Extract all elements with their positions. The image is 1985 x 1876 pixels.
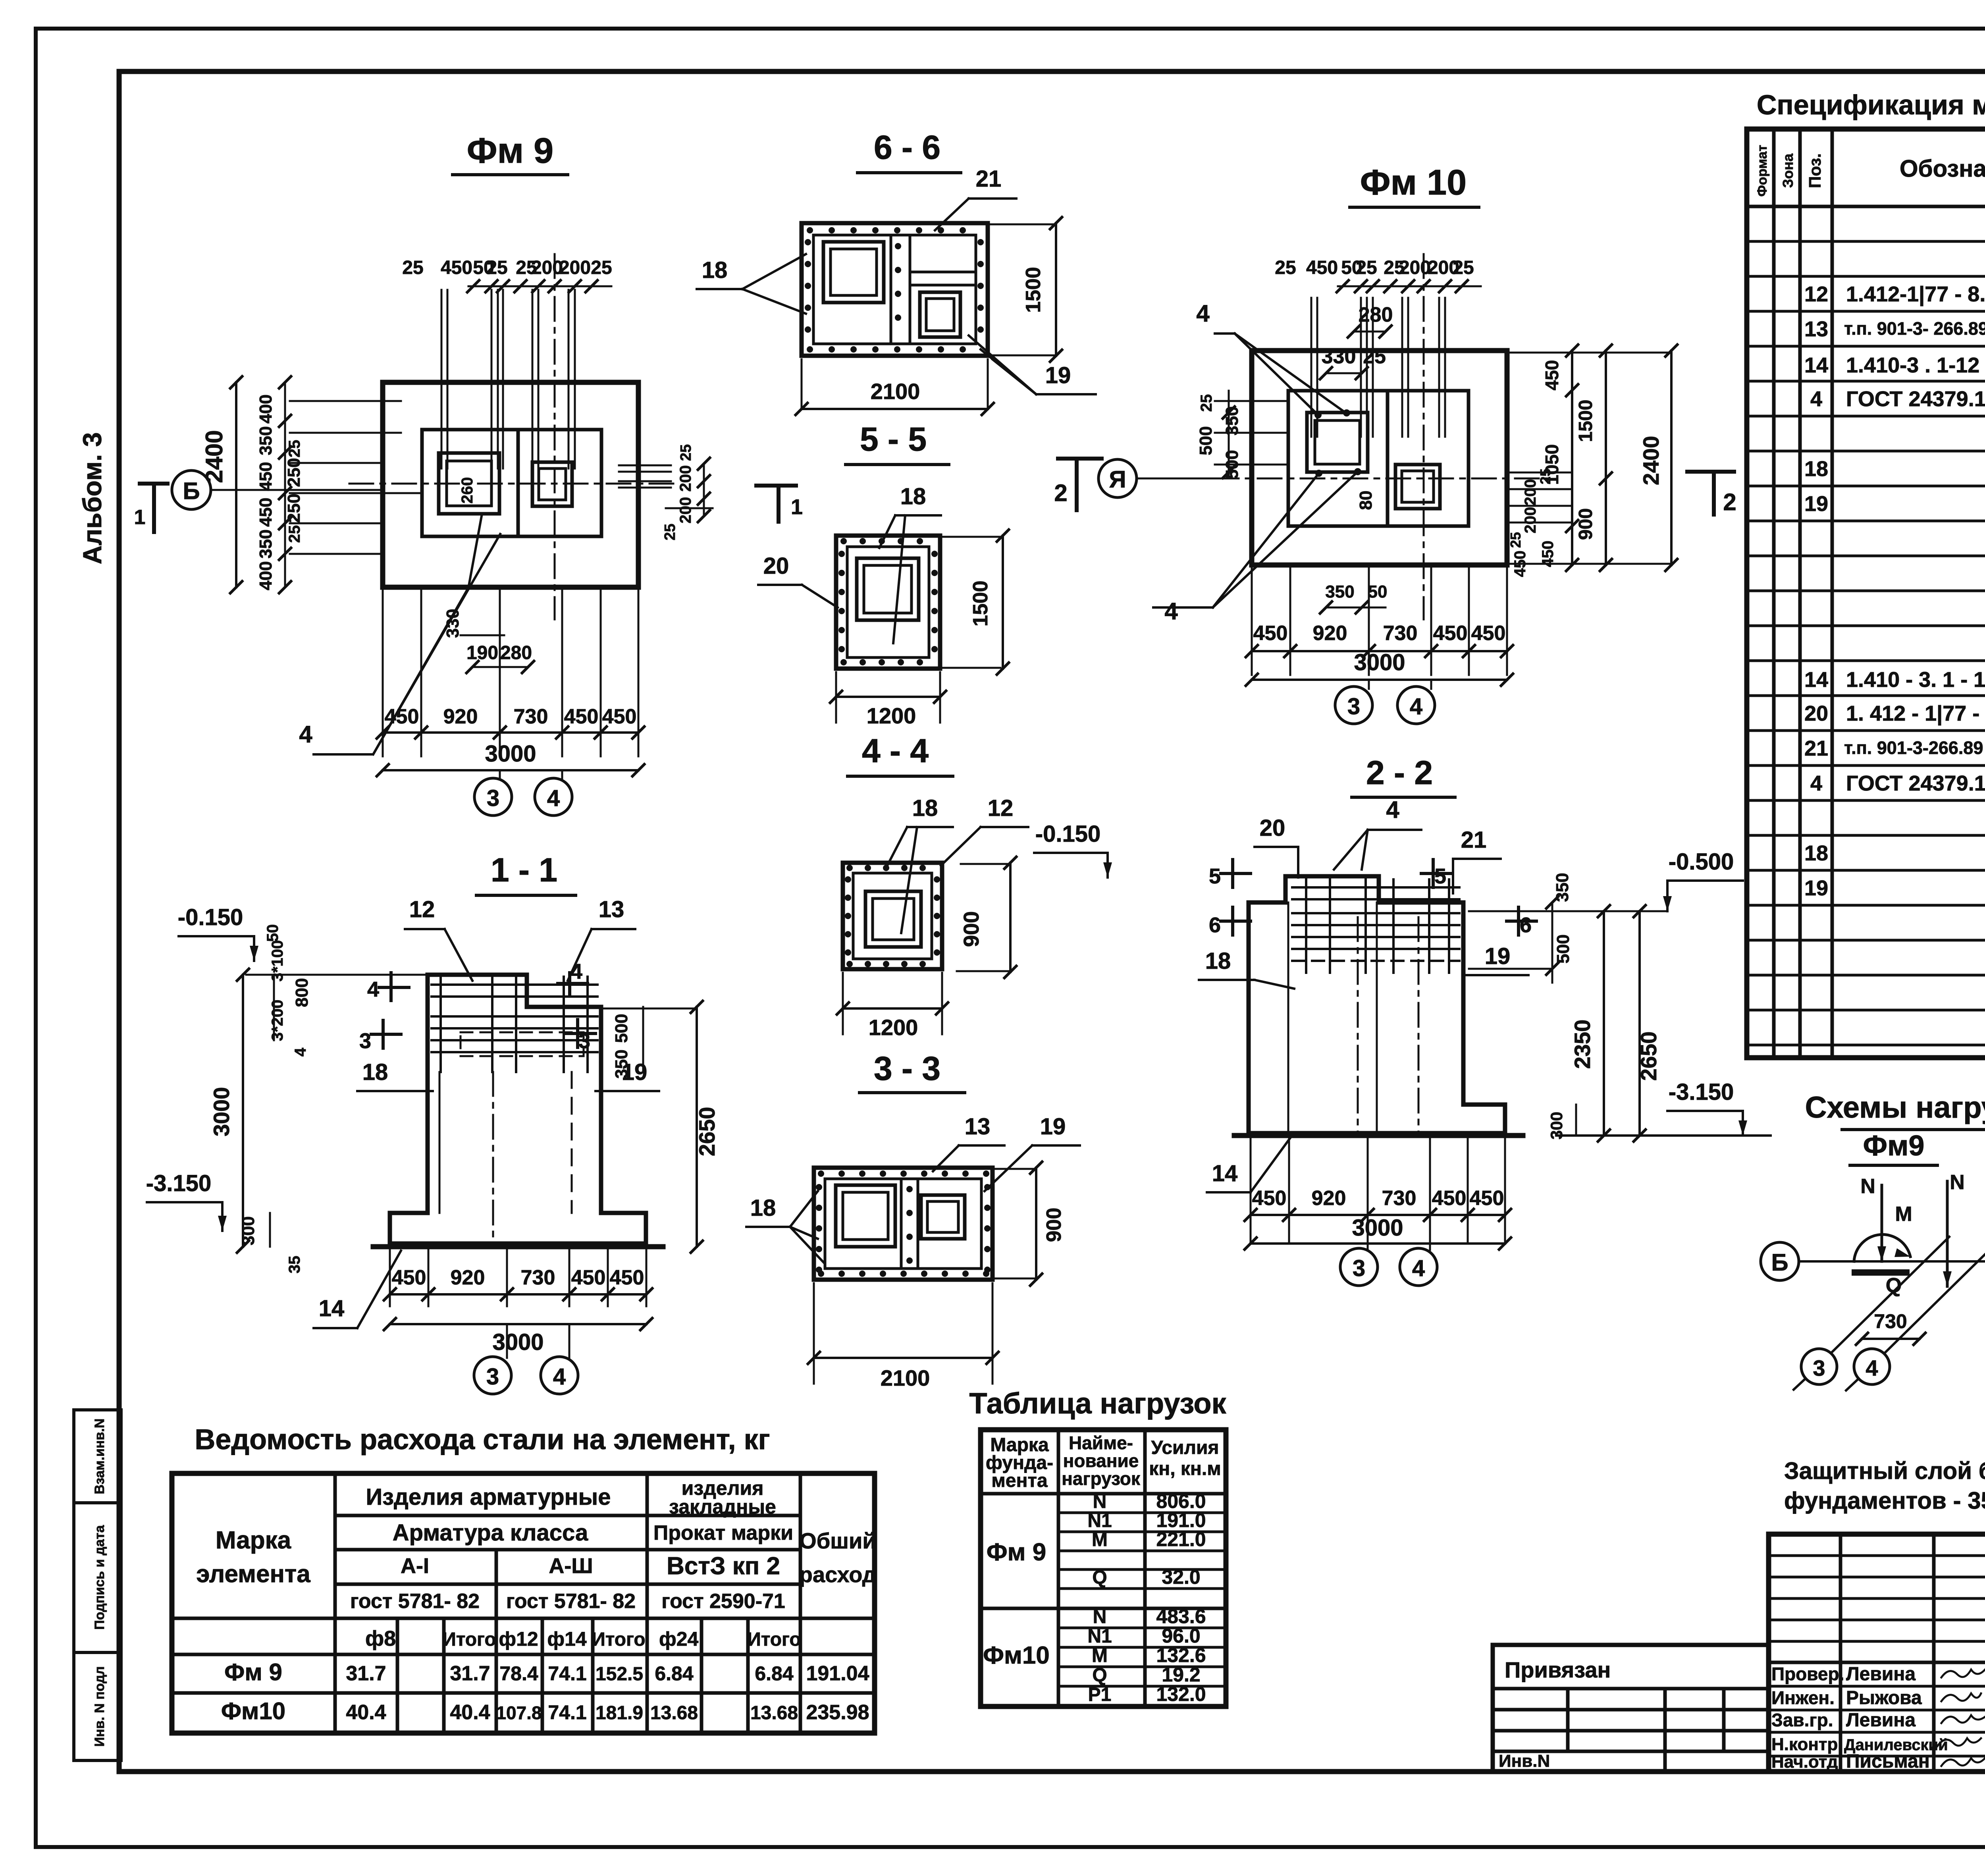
section 2-2 column outline — [1249, 876, 1463, 1105]
svg-text:14: 14 — [1804, 668, 1828, 692]
section 5-5 outer — [836, 536, 940, 669]
FM9 plan leader 4 — [314, 516, 482, 754]
FM9 plan top rebar projection lines — [441, 290, 443, 469]
svg-text:1.412-1|77 - 8.3 - 0.40: 1.412-1|77 - 8.3 - 0.40 — [1846, 282, 1985, 307]
section 1-1 dim 3000 vertical — [242, 975, 244, 1247]
section 2-2 mark 6 right — [1517, 907, 1520, 935]
svg-text:Б: Б — [183, 478, 200, 504]
FM10 plan dim 2400 — [1670, 351, 1673, 565]
svg-text:Рыжова: Рыжова — [1846, 1687, 1922, 1708]
svg-text:730: 730 — [1874, 1310, 1907, 1332]
section 4-4 outer — [843, 863, 942, 969]
svg-text:450: 450 — [1542, 360, 1562, 391]
svg-text:Зона: Зона — [1780, 153, 1796, 188]
svg-text:Письман: Письман — [1846, 1751, 1930, 1772]
svg-text:ГОСТ 24379.1 - 80: ГОСТ 24379.1 - 80 — [1846, 771, 1985, 795]
section 6-6 rebar dots — [807, 227, 813, 233]
svg-text:730: 730 — [1383, 622, 1418, 645]
FM9 plan axis circles 3 4 — [499, 770, 501, 778]
load scheme B force N1 — [1881, 1185, 1883, 1261]
svg-text:12: 12 — [409, 897, 435, 922]
load scheme B axis circle — [1761, 1242, 1799, 1280]
svg-text:450: 450 — [1432, 1187, 1467, 1210]
svg-text:1: 1 — [134, 506, 146, 529]
svg-text:4: 4 — [1410, 694, 1422, 719]
svg-text:Инв. N подл: Инв. N подл — [92, 1666, 107, 1747]
svg-text:N1: N1 — [1087, 1626, 1112, 1647]
svg-text:19: 19 — [1485, 943, 1511, 969]
svg-text:4: 4 — [1866, 1355, 1878, 1380]
FM9 plan anchor box left — [439, 453, 499, 514]
svg-text:450: 450 — [610, 1266, 644, 1289]
svg-text:32.0: 32.0 — [1162, 1566, 1200, 1588]
svg-text:Спецификация монолитных фундам: Спецификация монолитных фундаментов Фм9.… — [1757, 89, 1985, 120]
svg-text:500: 500 — [1553, 934, 1573, 963]
section 1-1 mark 3 left — [382, 1020, 385, 1048]
svg-text:25: 25 — [286, 440, 303, 458]
section 1-1 mark 3 right — [576, 1020, 579, 1047]
section 2-2 dim 3000 bottom — [1251, 1242, 1505, 1245]
svg-text:21: 21 — [1461, 827, 1487, 853]
FM10 plan axis circles 3 4 — [1368, 680, 1370, 689]
svg-text:3 - 3: 3 - 3 — [874, 1050, 940, 1087]
svg-text:80: 80 — [1356, 491, 1376, 510]
svg-text:Фм10: Фм10 — [983, 1642, 1050, 1669]
svg-text:450: 450 — [1253, 622, 1288, 645]
svg-text:Марка: Марка — [216, 1527, 291, 1554]
svg-text:ф14: ф14 — [547, 1628, 587, 1650]
svg-text:21: 21 — [1804, 737, 1828, 760]
svg-text:18: 18 — [1804, 457, 1828, 481]
svg-text:200: 200 — [1522, 507, 1539, 534]
svg-text:гост 2590-71: гост 2590-71 — [661, 1590, 785, 1613]
section 1-1 baseline — [373, 1244, 663, 1249]
steel table horizontals — [335, 1514, 800, 1517]
section 2-2 baseline — [1234, 1133, 1523, 1138]
svg-text:Фм 9: Фм 9 — [987, 1539, 1046, 1566]
section 3-3 outer — [814, 1168, 992, 1280]
svg-text:-3.150: -3.150 — [1669, 1079, 1734, 1105]
svg-text:450: 450 — [385, 705, 419, 728]
svg-text:3000: 3000 — [485, 741, 536, 767]
svg-text:40.4: 40.4 — [450, 1701, 490, 1724]
FM9 plan anchor box right — [532, 462, 572, 506]
svg-text:ф12: ф12 — [499, 1628, 538, 1650]
svg-text:3000: 3000 — [1354, 650, 1405, 675]
section 4-4 inner wall — [853, 873, 932, 959]
svg-text:920: 920 — [1313, 622, 1347, 645]
svg-text:Поз.: Поз. — [1806, 153, 1824, 188]
svg-text:5: 5 — [1434, 864, 1446, 888]
svg-text:250: 250 — [284, 494, 304, 523]
svg-text:т.п. 901-3- 266.89 КЖ.И71.0.0.: т.п. 901-3- 266.89 КЖ.И71.0.0.0 — [1844, 318, 1985, 339]
svg-text:2650: 2650 — [1636, 1032, 1661, 1081]
svg-text:N: N — [1860, 1175, 1875, 1198]
FM9 plan dim 2400 — [235, 382, 237, 587]
svg-text:260: 260 — [459, 477, 476, 504]
svg-text:Итого: Итого — [442, 1629, 496, 1650]
svg-text:350: 350 — [256, 426, 276, 455]
svg-text:25: 25 — [591, 257, 612, 278]
svg-text:40.4: 40.4 — [346, 1701, 386, 1724]
loads table verticals — [1057, 1430, 1060, 1706]
svg-text:450: 450 — [441, 257, 472, 278]
section 6-6 inner wall — [813, 235, 976, 344]
svg-text:закладные: закладные — [669, 1496, 776, 1518]
svg-text:1200: 1200 — [869, 1015, 918, 1040]
svg-text:19: 19 — [1040, 1114, 1066, 1139]
svg-text:18: 18 — [702, 257, 728, 283]
svg-text:200: 200 — [677, 465, 694, 492]
FM9 plan bottom extension lines — [382, 587, 384, 756]
svg-text:мента: мента — [991, 1470, 1048, 1491]
section 2-2 mark 5 left — [1231, 860, 1234, 887]
FM9 plan left extension lines — [290, 400, 401, 402]
svg-text:Зав.гр.: Зав.гр. — [1771, 1710, 1833, 1730]
FM9 plan top dimension line — [468, 285, 611, 287]
title block left grid verticals — [1839, 1534, 1842, 1772]
svg-text:450: 450 — [1433, 622, 1468, 645]
svg-text:Альбом. 3: Альбом. 3 — [77, 432, 107, 565]
svg-text:107.8: 107.8 — [496, 1702, 542, 1723]
FM9 plan left dim stack — [284, 382, 286, 587]
svg-text:4: 4 — [547, 785, 560, 811]
svg-text:Я: Я — [1109, 466, 1126, 493]
section 1-1 rebar mesh — [432, 983, 597, 986]
svg-text:ф24: ф24 — [659, 1628, 699, 1650]
section 2-2 bottom dims — [1250, 1139, 1252, 1243]
svg-text:483.6: 483.6 — [1156, 1605, 1206, 1627]
svg-text:М: М — [1092, 1529, 1108, 1550]
svg-text:-0.150: -0.150 — [178, 904, 243, 930]
svg-text:Прокат марки: Прокат марки — [653, 1521, 793, 1544]
svg-text:3: 3 — [1813, 1355, 1825, 1380]
svg-text:25: 25 — [1275, 257, 1296, 278]
svg-text:3: 3 — [578, 1029, 590, 1053]
section 2-2 dim 2650 — [1638, 911, 1641, 1136]
svg-text:4: 4 — [292, 1047, 309, 1057]
FM9 plan axis circle B — [172, 470, 211, 509]
svg-text:4: 4 — [1810, 771, 1822, 795]
svg-text:Р1: Р1 — [1088, 1684, 1112, 1705]
FM9 plan centerlines — [349, 483, 675, 485]
svg-text:14: 14 — [319, 1296, 345, 1321]
svg-text:200: 200 — [531, 257, 563, 278]
svg-text:19: 19 — [1045, 362, 1071, 388]
section 4-4 opening — [865, 891, 921, 947]
svg-text:25: 25 — [1363, 345, 1386, 368]
title block main frame — [1769, 1534, 1985, 1772]
svg-text:Провер.: Провер. — [1771, 1664, 1844, 1684]
title block privyazan box — [1493, 1645, 1769, 1772]
section 1-1 column inner lines — [439, 1072, 441, 1213]
svg-text:25: 25 — [1356, 257, 1377, 278]
svg-text:14: 14 — [1212, 1161, 1238, 1186]
svg-text:3000: 3000 — [1352, 1215, 1403, 1241]
svg-text:200: 200 — [1399, 257, 1431, 278]
svg-text:2650: 2650 — [694, 1107, 719, 1157]
svg-text:элемента: элемента — [196, 1560, 310, 1588]
svg-text:4: 4 — [1810, 387, 1822, 411]
svg-text:450: 450 — [571, 1266, 606, 1289]
section 4-4 dim 1200 — [843, 1007, 942, 1010]
svg-text:450: 450 — [1471, 622, 1506, 645]
section 2-2 dim 2350 — [1603, 911, 1605, 1136]
svg-text:400: 400 — [256, 561, 276, 590]
svg-text:350: 350 — [612, 1049, 631, 1078]
svg-text:13: 13 — [599, 897, 624, 922]
svg-text:20: 20 — [1804, 702, 1828, 725]
svg-text:152.5: 152.5 — [595, 1664, 643, 1685]
svg-text:1 - 1: 1 - 1 — [491, 851, 557, 889]
svg-text:т.п. 901-3-266.89 КЖ.И 72.0.00: т.п. 901-3-266.89 КЖ.И 72.0.00 — [1844, 738, 1985, 758]
svg-text:920: 920 — [443, 705, 478, 728]
section 2-2 rebar mesh — [1292, 886, 1459, 889]
svg-text:450: 450 — [256, 462, 276, 491]
svg-text:900: 900 — [1575, 508, 1596, 540]
svg-text:2 - 2: 2 - 2 — [1366, 754, 1433, 791]
svg-text:3: 3 — [487, 785, 499, 811]
load scheme B axis circles 3 4 — [1801, 1349, 1837, 1384]
svg-text:М: М — [1895, 1203, 1912, 1226]
svg-text:31.7: 31.7 — [346, 1662, 386, 1685]
section 1-1 dim 300 — [269, 1213, 271, 1247]
svg-text:250: 250 — [284, 458, 304, 487]
section 1-1 dim 3000 bottom — [390, 1323, 646, 1325]
FM10 plan dim col 1500 900 — [1605, 351, 1607, 565]
section 3-3 divider — [900, 1179, 903, 1269]
svg-text:Защитный слой бетона для армат: Защитный слой бетона для арматуры подошв… — [1784, 1458, 1985, 1484]
svg-text:13.68: 13.68 — [750, 1702, 798, 1724]
svg-text:Схемы нагрузок на фундамент: Схемы нагрузок на фундаменты — [1805, 1091, 1985, 1124]
section 2-2 right small dims 350 500 — [1551, 902, 1553, 983]
section 1-1 left small dims — [273, 975, 275, 1040]
FM9 plan dim 3000 — [383, 769, 638, 771]
FM10 plan left dims — [1215, 400, 1288, 402]
svg-text:Фм10: Фм10 — [221, 1698, 285, 1724]
svg-text:18: 18 — [750, 1195, 776, 1221]
section 1-1 mark 4 right — [568, 973, 571, 995]
svg-text:25: 25 — [1453, 257, 1474, 278]
svg-text:6 - 6: 6 - 6 — [874, 129, 940, 166]
section 6-6 divider — [890, 235, 892, 344]
svg-text:35: 35 — [286, 1256, 303, 1274]
svg-text:Q: Q — [1092, 1665, 1107, 1686]
loads table header bottom line — [981, 1492, 1226, 1496]
svg-text:5: 5 — [1209, 864, 1221, 888]
svg-text:500: 500 — [1196, 426, 1216, 455]
svg-text:Итого: Итого — [747, 1629, 801, 1650]
spec table frame — [1747, 129, 1985, 1058]
section 6-6 dim 2100 — [802, 408, 988, 410]
svg-text:25: 25 — [678, 444, 694, 461]
svg-text:1.410-3 . 1-12: 1.410-3 . 1-12 — [1846, 353, 1979, 377]
svg-text:А-I: А-I — [401, 1554, 429, 1578]
svg-text:50: 50 — [264, 924, 281, 942]
svg-text:расход: расход — [799, 1562, 877, 1587]
svg-text:Фм9: Фм9 — [1863, 1130, 1925, 1162]
svg-text:5 - 5: 5 - 5 — [860, 420, 927, 458]
svg-text:6.84: 6.84 — [655, 1662, 694, 1685]
svg-text:Нач.отд: Нач.отд — [1771, 1752, 1838, 1772]
left margin stamp boxes — [74, 1410, 121, 1503]
svg-text:132.0: 132.0 — [1156, 1683, 1206, 1705]
svg-text:21: 21 — [976, 166, 1002, 192]
svg-text:14: 14 — [1804, 353, 1828, 377]
svg-text:4: 4 — [570, 960, 582, 983]
svg-text:730: 730 — [521, 1266, 555, 1289]
svg-text:Обозначение: Обозначение — [1900, 155, 1985, 182]
FM9 plan right ext lines — [619, 465, 671, 467]
svg-text:гост 5781- 82: гост 5781- 82 — [350, 1590, 480, 1613]
title block signature rows — [1769, 1685, 1985, 1688]
svg-text:920: 920 — [1312, 1187, 1346, 1210]
section 2-2 footing — [1249, 1105, 1505, 1133]
FM9 plan inner pedestal — [422, 430, 601, 536]
svg-text:25: 25 — [402, 257, 423, 278]
svg-text:3000: 3000 — [492, 1329, 543, 1355]
svg-text:М: М — [1092, 1645, 1108, 1666]
svg-text:3000: 3000 — [209, 1087, 234, 1137]
spec table column lines — [1772, 129, 1776, 1058]
svg-text:190: 190 — [466, 642, 498, 663]
svg-text:181.9: 181.9 — [595, 1702, 643, 1724]
svg-text:4: 4 — [1164, 598, 1178, 625]
svg-text:50: 50 — [1368, 582, 1388, 602]
svg-text:6: 6 — [1209, 913, 1221, 937]
svg-text:900: 900 — [1043, 1208, 1066, 1242]
svg-text:нагрузок: нагрузок — [1062, 1468, 1141, 1489]
svg-text:Изделия арматурные: Изделия арматурные — [366, 1484, 611, 1510]
svg-text:132.6: 132.6 — [1156, 1644, 1206, 1666]
svg-text:25: 25 — [1198, 394, 1215, 412]
svg-text:25: 25 — [662, 524, 678, 540]
svg-text:Арматура класса: Арматура класса — [393, 1520, 588, 1546]
FM10 section mark 2 left — [1075, 459, 1079, 510]
FM10 plan axis circle A — [1098, 459, 1137, 497]
svg-text:18: 18 — [362, 1059, 388, 1085]
svg-text:фундаментов - 35мм, остальной: фундаментов - 35мм, остальной - 20мм. — [1784, 1487, 1985, 1514]
svg-text:Левина: Левина — [1846, 1710, 1916, 1731]
svg-text:18: 18 — [1205, 948, 1231, 974]
steel table frame — [172, 1473, 875, 1733]
FM10 plan top dim line — [1338, 285, 1481, 287]
svg-text:3: 3 — [1347, 694, 1360, 719]
svg-text:Таблица нагрузок: Таблица нагрузок — [969, 1387, 1226, 1420]
svg-text:3: 3 — [486, 1364, 499, 1390]
section 3-3 rebar dots — [818, 1170, 824, 1177]
section 5-5 rebar dots — [840, 538, 847, 544]
svg-text:450: 450 — [1252, 1187, 1287, 1210]
section 2-2 inner column lines — [1287, 902, 1289, 1133]
svg-text:900: 900 — [960, 911, 983, 947]
section 5-5 inner wall — [847, 547, 929, 657]
svg-text:Усилия: Усилия — [1151, 1437, 1219, 1458]
svg-text:2100: 2100 — [871, 379, 920, 404]
section 3-3 left opening — [836, 1185, 895, 1247]
svg-text:730: 730 — [1382, 1187, 1416, 1210]
svg-text:ГОСТ 24379.1- 80: ГОСТ 24379.1- 80 — [1846, 387, 1985, 411]
FM10 plan anchor box right — [1395, 465, 1440, 509]
svg-text:N1: N1 — [1087, 1510, 1112, 1531]
svg-text:13: 13 — [1804, 317, 1828, 341]
section 3-3 inner wall — [825, 1179, 981, 1269]
title block left thin rows — [1769, 1554, 1985, 1557]
section 1-1 mark 4 left — [389, 973, 393, 1001]
svg-text:4: 4 — [1386, 796, 1399, 823]
title block signatures squiggles — [1941, 1670, 1985, 1677]
svg-text:450: 450 — [1470, 1187, 1504, 1210]
svg-text:350: 350 — [1325, 582, 1354, 602]
svg-text:3*200: 3*200 — [269, 1000, 286, 1041]
svg-text:Инв.N: Инв.N — [1499, 1751, 1550, 1771]
svg-text:400: 400 — [256, 394, 276, 423]
section 3-3 right opening — [921, 1195, 965, 1239]
svg-text:4: 4 — [1412, 1255, 1425, 1281]
svg-text:Взам.инв.N: Взам.инв.N — [92, 1419, 107, 1494]
svg-text:300: 300 — [1547, 1112, 1566, 1139]
svg-text:12: 12 — [1804, 282, 1828, 306]
spec table row lines — [1747, 240, 1985, 243]
svg-text:Н.контр: Н.контр — [1771, 1735, 1838, 1754]
section 1-1 bottom dims — [389, 1247, 391, 1306]
svg-text:1200: 1200 — [867, 703, 916, 728]
load scheme B axis line — [1799, 1260, 1985, 1263]
FM10 plan centerlines — [1215, 478, 1548, 480]
load scheme B moment arc — [1854, 1234, 1910, 1261]
svg-text:2100: 2100 — [881, 1365, 930, 1390]
FM10 plan outer slab — [1252, 351, 1507, 565]
svg-text:2: 2 — [1054, 480, 1067, 506]
section 1-1 footing — [390, 1213, 646, 1244]
svg-text:Привязан: Привязан — [1505, 1657, 1611, 1682]
loads table frame — [981, 1430, 1226, 1706]
svg-text:-0.150: -0.150 — [1035, 821, 1100, 847]
section 2-2 axis circles 3 4 — [1367, 1244, 1369, 1250]
svg-text:500: 500 — [612, 1014, 631, 1043]
section 3-3 dim 2100 — [814, 1357, 992, 1359]
svg-text:Фм 9: Фм 9 — [224, 1659, 282, 1685]
section 6-6 left opening — [823, 242, 884, 303]
section 2-2 mark 6 left — [1231, 907, 1234, 935]
svg-text:221.0: 221.0 — [1156, 1528, 1206, 1550]
svg-text:6.84: 6.84 — [755, 1662, 794, 1685]
svg-text:1500: 1500 — [969, 580, 992, 627]
svg-text:Фм 9: Фм 9 — [467, 131, 553, 171]
FM10 plan inner pedestal — [1288, 391, 1469, 526]
svg-text:N: N — [1093, 1491, 1107, 1512]
svg-text:74.1: 74.1 — [548, 1662, 586, 1685]
load scheme B force N2 — [1946, 1181, 1949, 1286]
svg-text:3: 3 — [1353, 1255, 1365, 1281]
svg-text:Формат: Формат — [1755, 145, 1770, 197]
svg-text:350: 350 — [256, 529, 276, 558]
svg-text:18: 18 — [900, 484, 926, 509]
svg-text:2400: 2400 — [1638, 436, 1663, 486]
svg-text:450: 450 — [564, 705, 599, 728]
FM10 section mark 2 right — [1712, 472, 1716, 515]
FM9 plan bottom dims 450 920 730 450 450 — [383, 731, 638, 734]
section 1-1 axis circles 3 4 — [506, 1324, 508, 1358]
svg-text:31.7: 31.7 — [450, 1662, 490, 1685]
svg-text:Б: Б — [1771, 1249, 1788, 1276]
svg-text:1.410 - 3. 1 - 12: 1.410 - 3. 1 - 12 — [1846, 668, 1985, 692]
svg-text:25: 25 — [286, 525, 303, 543]
svg-text:13: 13 — [965, 1114, 991, 1139]
section 2-2 mark 5 right — [1432, 860, 1435, 887]
FM10 plan top rebar lines — [1310, 298, 1312, 437]
svg-text:А-Ш: А-Ш — [549, 1554, 593, 1578]
